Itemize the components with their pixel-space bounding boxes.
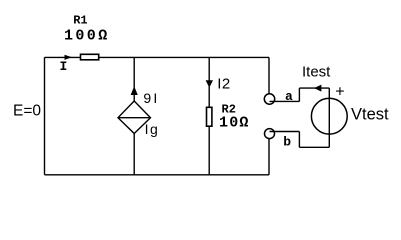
arrow I on top wire (65, 55, 72, 60)
terminal b (265, 129, 275, 139)
wire R2 branch bottom (208, 127, 210, 175)
resistor R1 (81, 54, 99, 60)
arrow Itest (left) (314, 85, 321, 92)
wire dependent-source branch bottom (133, 134, 135, 175)
wire corner up at a (298, 88, 300, 101)
terminal a (264, 94, 274, 104)
wire right top (to terminal a) (268, 57, 270, 94)
svg-text:b: b (283, 135, 291, 150)
wire vertical through Vtest (328, 88, 330, 147)
svg-text:R1: R1 (73, 14, 87, 28)
wire dependent-source branch top (133, 57, 135, 101)
arrow I2 (down) (206, 80, 213, 87)
wire top side (45, 56, 270, 58)
svg-text:+: + (335, 83, 344, 100)
wire top rail to Vtest (299, 87, 329, 89)
svg-text:Itest: Itest (302, 63, 331, 80)
wire R2 branch top (208, 57, 210, 107)
svg-text:Ig: Ig (145, 121, 160, 137)
wire corner up at b (298, 132, 300, 148)
svg-text:a: a (285, 89, 293, 104)
svg-text:E=0: E=0 (13, 102, 41, 119)
svg-text:Vtest: Vtest (351, 106, 389, 124)
wire right bottom (from terminal b) (268, 139, 270, 175)
svg-text:9I: 9I (143, 90, 159, 106)
svg-text:I2: I2 (217, 75, 230, 92)
dependent source Ig diamond (118, 101, 151, 134)
wire terminal a to corner (270, 100, 300, 102)
arrow inside source branch (up) (131, 86, 138, 95)
wire bottom side (45, 174, 270, 176)
svg-text:100Ω: 100Ω (64, 28, 110, 45)
wire left side (44, 57, 46, 174)
source Vtest circle (311, 98, 347, 134)
wire terminal b to corner (270, 131, 300, 133)
resistor R2 (207, 107, 212, 126)
svg-text:I: I (60, 59, 68, 74)
wire bottom rail from Vtest (299, 146, 329, 148)
svg-text:10Ω: 10Ω (219, 115, 250, 132)
